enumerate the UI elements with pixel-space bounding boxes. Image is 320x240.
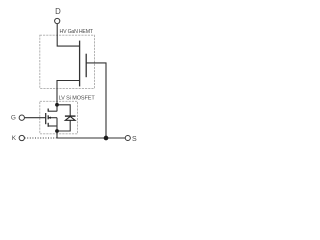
svg-text:D: D — [55, 7, 61, 16]
svg-text:LV Si MOSFET: LV Si MOSFET — [59, 95, 96, 101]
svg-text:K: K — [12, 135, 17, 142]
svg-text:G: G — [11, 115, 16, 122]
svg-text:HV GaN HEMT: HV GaN HEMT — [60, 29, 94, 35]
svg-text:S: S — [132, 136, 137, 143]
